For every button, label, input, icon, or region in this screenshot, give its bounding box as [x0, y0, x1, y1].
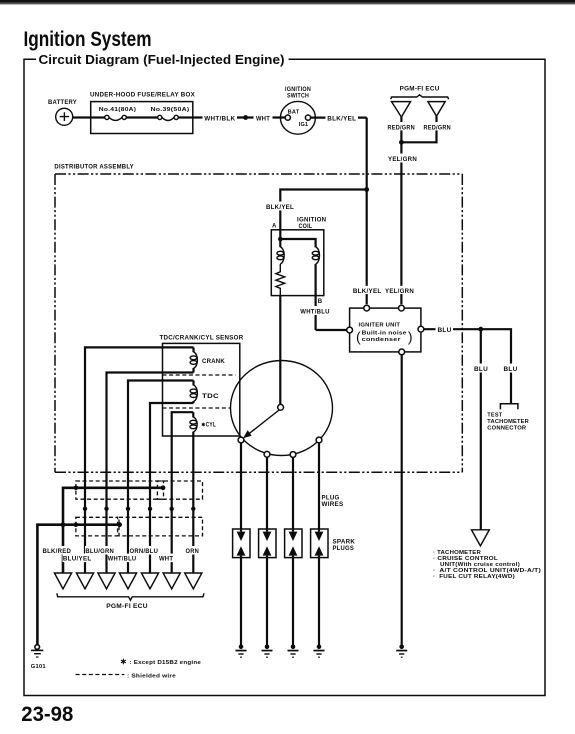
svg-text:TACHOMETER: TACHOMETER — [487, 419, 529, 425]
PGM-FI ECU (top) — [391, 87, 449, 100]
label plug wires — [322, 496, 344, 508]
svg-text:No.39(50A): No.39(50A) — [151, 107, 190, 113]
ECU connector triangle 5 ORN/BLU — [141, 573, 158, 589]
igniter terminal right (BLU) — [418, 326, 424, 332]
svg-text:A: A — [272, 224, 277, 230]
wire BLU down to connector triangle — [473, 329, 490, 530]
svg-text:BLU: BLU — [474, 367, 488, 373]
labels above igniter — [352, 286, 383, 294]
svg-text:PGM-FI ECU: PGM-FI ECU — [400, 87, 440, 93]
ECU connector triangle 1 BLK/RED — [54, 573, 71, 589]
ground 3 — [288, 645, 299, 658]
svg-text:): ) — [408, 329, 413, 345]
svg-text:No.41(80A): No.41(80A) — [99, 107, 137, 113]
svg-text:WHT: WHT — [159, 557, 173, 563]
ground 1 — [236, 645, 247, 658]
svg-text:Built-in noise: Built-in noise — [362, 330, 407, 336]
svg-text:Circuit Diagram (Fuel-Injected: Circuit Diagram (Fuel-Injected Engine) — [39, 52, 285, 67]
svg-text:YEL/GRN: YEL/GRN — [385, 289, 414, 295]
svg-text:Ignition System: Ignition System — [24, 28, 152, 51]
shield drain wire 2 (G101) — [37, 525, 119, 645]
ECU connector triangle 3 BLU/GRN — [98, 573, 115, 589]
spark plug 4 — [311, 529, 328, 558]
svg-text:BLK/YEL: BLK/YEL — [266, 205, 294, 211]
sensor shield separator 1 — [163, 374, 236, 376]
shield box 2 — [157, 481, 202, 499]
page frame — [24, 59, 545, 695]
svg-text:PGM-FI ECU: PGM-FI ECU — [106, 604, 148, 610]
ECU connector triangle 6 WHT — [163, 573, 180, 589]
destination list — [433, 550, 541, 580]
junction dot RED/GRN — [399, 140, 404, 145]
igniter terminal YEL/GRN (top right) — [399, 305, 405, 311]
wire CRANK top — [85, 347, 194, 573]
wire coil primary to distributor center — [279, 296, 281, 405]
svg-text:DISTRIBUTOR ASSEMBLY: DISTRIBUTOR ASSEMBLY — [54, 165, 133, 171]
connector triangle RED/GRN 2 — [428, 102, 445, 117]
coil secondary winding — [312, 247, 323, 330]
spark plug 1 — [233, 529, 250, 558]
G101 ground — [31, 645, 46, 670]
ground 4 — [314, 645, 325, 658]
coil top link — [280, 239, 315, 247]
svg-text:BLU/YEL: BLU/YEL — [63, 557, 92, 563]
junction dots drain wire 2 — [117, 522, 122, 527]
ground 5 (igniter) — [396, 645, 407, 658]
svg-text:IGNITER UNIT: IGNITER UNIT — [359, 323, 401, 329]
top black bar — [0, 0, 575, 3]
shield drain wire 1 (BLK/RED) — [63, 488, 163, 574]
svg-text:IG1: IG1 — [299, 122, 309, 128]
spark plug 3 — [285, 529, 302, 558]
distributor cap terminal 3 — [290, 452, 296, 458]
svg-text:PLUG: PLUG — [322, 496, 340, 502]
svg-text:BLU: BLU — [438, 328, 452, 334]
wire igniter ground — [401, 355, 403, 646]
svg-text:BLK/YEL: BLK/YEL — [327, 116, 356, 122]
svg-text:IGNITION: IGNITION — [285, 87, 311, 93]
junction dots drain wire 1 — [74, 486, 79, 491]
ground 2 — [262, 645, 273, 658]
shield box 4 — [119, 517, 203, 536]
coil primary winding — [277, 239, 284, 264]
labels RED/GRN RED/GRN — [386, 122, 416, 130]
test tachometer connector — [487, 404, 529, 432]
PGM-FI ECU bracket (bottom) — [57, 593, 204, 610]
label spark plugs — [333, 540, 356, 552]
wire CRANK bottom — [107, 373, 194, 574]
svg-text:RED/GRN: RED/GRN — [423, 125, 451, 131]
svg-text:WIRES: WIRES — [322, 502, 344, 508]
wire BLK/YEL vertical down to igniter — [366, 118, 368, 305]
wire RED/GRN 1 down — [400, 117, 402, 142]
svg-text:SWITCH: SWITCH — [287, 94, 309, 100]
fuse No.39(50A) — [151, 107, 193, 120]
TDC/CRANK/CYL sensor box — [160, 336, 244, 436]
wire coil B to igniter — [316, 329, 347, 331]
junction dot on battery wire — [243, 115, 248, 120]
svg-text:RED/GRN: RED/GRN — [387, 125, 415, 131]
spark plug 2 — [259, 529, 276, 558]
svg-text:WHT/BLU: WHT/BLU — [300, 309, 329, 315]
wire CYL top — [172, 412, 194, 573]
svg-text:: Except D15B2 engine: : Except D15B2 engine — [130, 660, 202, 666]
wire TDC bottom — [150, 403, 194, 574]
igniter terminal left (WHT/BLU) — [347, 327, 353, 333]
battery — [48, 100, 77, 125]
svg-text:23-98: 23-98 — [21, 702, 73, 726]
wire RED/GRN 2 down and left — [401, 116, 436, 142]
ECU connector triangle 4 WHT/BLU — [119, 573, 136, 589]
ground wire from spark plug 2 — [266, 558, 268, 646]
svg-text:WHT/BLU: WHT/BLU — [108, 557, 137, 563]
wire fuse box to ignition switch, labels WHT/BLK and WHT — [193, 113, 285, 122]
distributor cap terminal 1 — [238, 437, 244, 443]
svg-text:WHT/BLK: WHT/BLK — [204, 116, 235, 122]
junction dots row on sensor wires — [83, 507, 87, 511]
junction node at coil branch — [364, 187, 369, 192]
svg-text:PLUGS: PLUGS — [333, 546, 355, 552]
legend: shielded wire — [76, 673, 176, 679]
ground wire from spark plug 3 — [292, 558, 294, 646]
svg-text:B: B — [318, 299, 323, 305]
svg-text:BATTERY: BATTERY — [48, 100, 77, 106]
svg-text:WHT: WHT — [256, 116, 270, 122]
ground wire from spark plug 1 — [240, 558, 242, 646]
connector triangle RED/GRN 1 — [392, 102, 411, 118]
ECU connector triangle 2 BLU/YEL — [76, 573, 93, 589]
CRANK pickup coil — [190, 347, 225, 372]
svg-text:BLK/YEL: BLK/YEL — [353, 289, 382, 295]
label WHT/BLU — [299, 306, 332, 315]
coil primary resistor — [276, 264, 285, 296]
sensor shield separator 2 — [163, 407, 231, 409]
svg-text:ORN: ORN — [186, 549, 200, 555]
ECU connector triangle 7 ORN — [185, 573, 202, 589]
connector triangle BLU (bottom right) — [472, 530, 490, 546]
distributor cap terminal 2 — [264, 451, 270, 457]
under-hood fuse/relay box — [90, 93, 195, 134]
svg-text:TDC/CRANK/CYL SENSOR: TDC/CRANK/CYL SENSOR — [160, 336, 244, 342]
plug wire 1 — [240, 443, 242, 532]
ignition switch — [280, 87, 315, 134]
wire IG1 to bend, label BLK/YEL — [311, 113, 367, 122]
CYL pickup coil — [190, 412, 197, 573]
plug wire 4 — [318, 443, 320, 532]
svg-text:CYL: CYL — [206, 422, 217, 428]
svg-text:BLU: BLU — [504, 367, 518, 373]
legend: except engine — [121, 659, 201, 666]
wire battery to fuse box — [73, 116, 91, 118]
igniter unit — [350, 308, 421, 352]
shield box 3 — [76, 517, 118, 536]
wire branch to ignition coil — [280, 190, 366, 240]
svg-text:G101: G101 — [31, 664, 46, 670]
shield box 1 — [76, 481, 164, 499]
svg-text:CRANK: CRANK — [202, 359, 225, 365]
rotor arm — [243, 404, 284, 438]
distributor rotor circle — [231, 361, 333, 456]
plug wire 3 — [292, 457, 294, 531]
wire YEL/GRN down to igniter — [386, 142, 418, 304]
wire labels row 1 — [42, 546, 201, 555]
ground wire from spark plug 4 — [318, 558, 320, 646]
ignition coil — [271, 218, 326, 296]
fuse No.41(80A) — [91, 107, 158, 120]
svg-text:: Shielded wire: : Shielded wire — [127, 673, 176, 679]
plug wire 2 — [266, 457, 268, 531]
svg-text:(: ( — [356, 329, 361, 345]
svg-text:CONNECTOR: CONNECTOR — [487, 426, 526, 432]
svg-text:BAT: BAT — [288, 110, 300, 116]
svg-text:condenser: condenser — [362, 337, 402, 343]
svg-text:· FUEL CUT RELAY(4WD): · FUEL CUT RELAY(4WD) — [433, 574, 515, 580]
distributor assembly dashed boundary — [54, 165, 462, 473]
TDC pickup coil — [190, 381, 219, 404]
wire igniter right BLU — [424, 325, 511, 404]
wire labels row 2 — [63, 554, 176, 563]
coil internal junction dot — [278, 237, 283, 242]
svg-text:UNDER-HOOD FUSE/RELAY BOX: UNDER-HOOD FUSE/RELAY BOX — [90, 93, 195, 99]
svg-text:SPARK: SPARK — [333, 540, 356, 546]
wire TDC top — [128, 381, 194, 574]
svg-text:TDC: TDC — [202, 394, 220, 400]
label BLK/YEL at coil — [265, 202, 296, 211]
igniter terminal BLK/YEL (top left) — [364, 305, 370, 311]
CYL asterisk and label — [202, 422, 216, 428]
svg-text:TEST: TEST — [487, 413, 502, 419]
junction dot BLU — [478, 327, 483, 332]
svg-text:IGNITION: IGNITION — [297, 218, 326, 224]
igniter terminal bottom (ground) — [399, 349, 405, 355]
label BLU on right branch — [502, 364, 519, 373]
svg-text:YEL/GRN: YEL/GRN — [388, 157, 417, 163]
distributor cap terminal 4 — [316, 437, 322, 443]
